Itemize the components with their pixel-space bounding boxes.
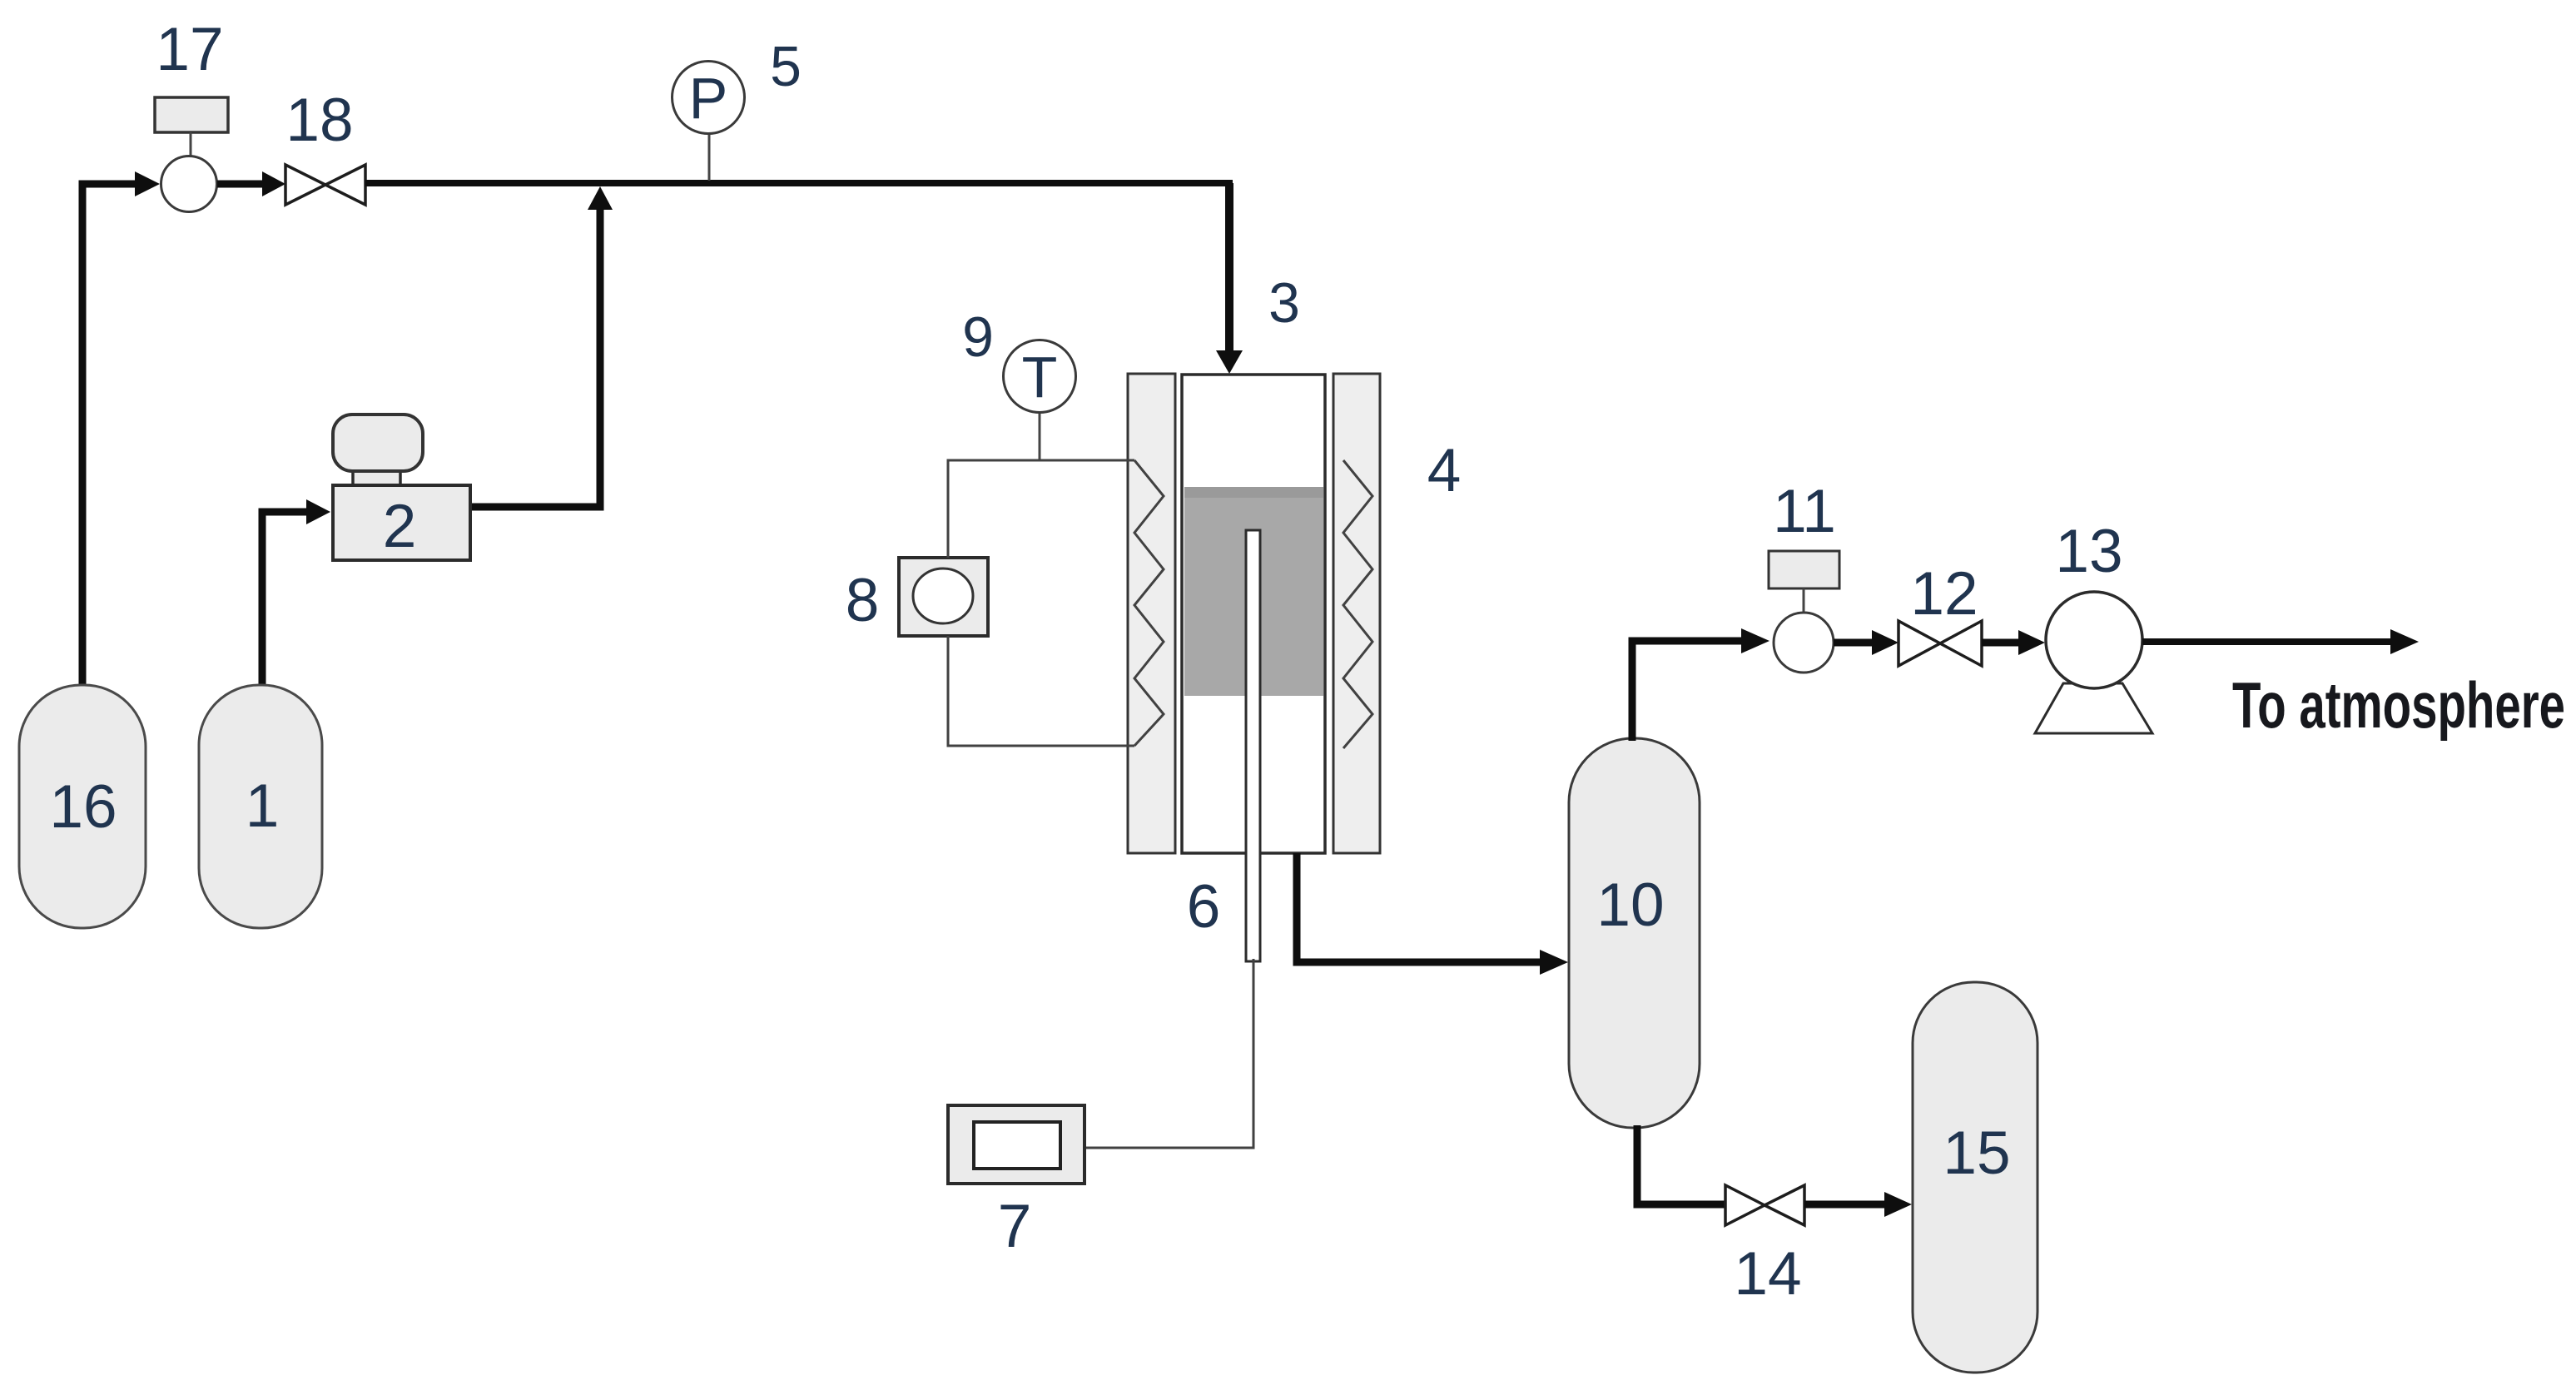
label 6 <box>1187 873 1221 941</box>
regulator 17 body (circle) <box>161 156 217 212</box>
svg-text:14: 14 <box>1734 1240 1801 1308</box>
catalyst bed (gray) <box>1184 487 1323 696</box>
svg-text:11: 11 <box>1773 478 1836 545</box>
wire: trap 10 bottom to valve 14 <box>1637 1125 1725 1204</box>
wire: regulator 11 to valve 12 <box>1834 630 1898 655</box>
svg-text:To atmosphere: To atmosphere <box>2232 668 2565 742</box>
regulator 17 actuator box <box>155 97 228 156</box>
P gauge 5 stem <box>708 133 711 181</box>
regulator 11 body <box>1774 613 1834 673</box>
thermocouple wires to furnace <box>948 460 1134 746</box>
svg-text:4: 4 <box>1427 437 1462 504</box>
svg-text:12: 12 <box>1910 560 1978 628</box>
svg-text:P: P <box>689 66 728 131</box>
cylinder 15 <box>1913 982 2037 1373</box>
exit line to atmosphere <box>2142 629 2419 654</box>
label 14 <box>1734 1240 1801 1308</box>
wire: pump 2 outlet up to main line <box>470 186 613 507</box>
label 3 <box>1268 271 1300 335</box>
svg-text:17: 17 <box>156 16 223 83</box>
furnace left panel 4 <box>1128 374 1175 853</box>
svg-text:8: 8 <box>846 567 880 634</box>
T gauge 9 stem <box>1039 412 1041 461</box>
valve 14 <box>1725 1185 1804 1225</box>
wire: cylinder 16 up to regulator 17 <box>82 171 160 685</box>
wire: trap 10 to regulator 11 <box>1632 628 1769 741</box>
thermocouple rod 6 <box>1246 530 1260 961</box>
svg-text:10: 10 <box>1596 871 1664 939</box>
controller 8 <box>899 558 988 636</box>
line down into reactor 3 with arrow <box>1216 183 1243 374</box>
svg-text:16: 16 <box>49 773 117 841</box>
regulator 11 actuator box <box>1769 551 1839 613</box>
label 7 <box>998 1193 1032 1260</box>
label 9 <box>962 305 994 369</box>
cylinder 16 <box>19 685 146 928</box>
svg-text:9: 9 <box>962 305 994 369</box>
svg-text:18: 18 <box>285 87 353 154</box>
label 11 <box>1773 478 1836 545</box>
label 4 <box>1427 437 1462 504</box>
wire: valve 12 to pump 13 <box>1982 630 2045 655</box>
thermocouple wire to controller 7 <box>1085 959 1253 1148</box>
svg-text:T: T <box>1022 345 1058 410</box>
pump 2 body <box>333 485 470 560</box>
svg-text:5: 5 <box>770 35 802 98</box>
main top line <box>365 180 1233 186</box>
label 18 <box>285 87 353 154</box>
svg-text:6: 6 <box>1187 873 1221 941</box>
cylinder 1 <box>199 685 322 928</box>
wire: valve 14 to cylinder 15 <box>1804 1192 1912 1217</box>
pump 2 top cap <box>333 415 423 488</box>
vacuum pump 13 <box>2046 592 2142 688</box>
reactor outlet to trap 10 <box>1297 853 1568 975</box>
label 12 <box>1910 560 1978 628</box>
label: To atmosphere <box>2232 668 2565 742</box>
svg-text:15: 15 <box>1943 1119 2010 1187</box>
label 5 <box>770 35 802 98</box>
wire: regulator 17 to valve 18 <box>217 171 285 196</box>
svg-text:1: 1 <box>246 772 280 840</box>
label 13 <box>2055 518 2122 585</box>
label 17 <box>156 16 223 83</box>
svg-text:13: 13 <box>2055 518 2122 585</box>
svg-text:7: 7 <box>998 1193 1032 1260</box>
vacuum pump 13 base <box>2035 683 2152 733</box>
svg-text:3: 3 <box>1268 271 1300 335</box>
furnace right panel 4 <box>1333 374 1380 853</box>
valve 18 <box>285 165 365 205</box>
controller 7 <box>948 1105 1085 1184</box>
T gauge 9 <box>1004 340 1076 413</box>
svg-text:2: 2 <box>383 493 417 560</box>
reactor tube 3 <box>1182 375 1325 853</box>
valve 12 <box>1898 621 1982 666</box>
label 8 <box>846 567 880 634</box>
cold trap 10 <box>1569 738 1700 1128</box>
P gauge 5 <box>673 62 745 134</box>
wire: cylinder 1 to pump 2 <box>262 499 330 685</box>
